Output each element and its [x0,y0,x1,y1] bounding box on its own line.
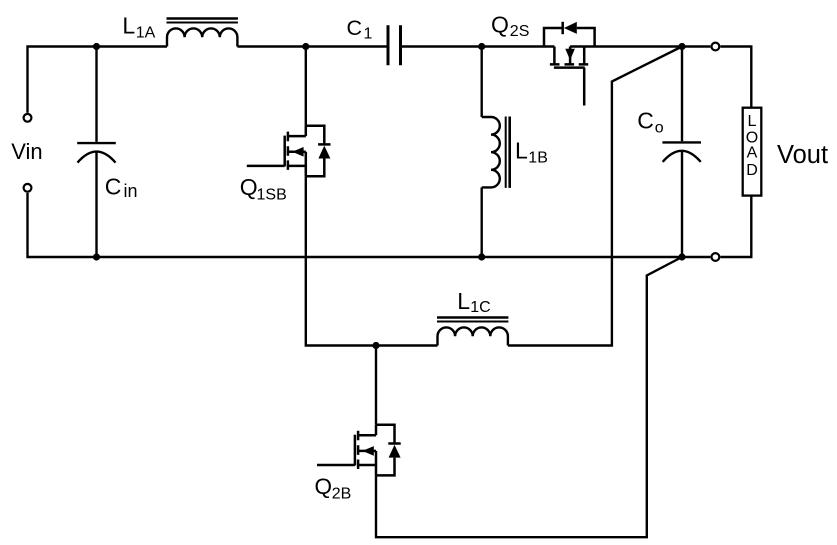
svg-text:Q: Q [240,174,258,200]
svg-text:D: D [746,162,758,179]
svg-text:L: L [457,288,470,314]
svg-text:1SB: 1SB [257,187,287,204]
svg-text:2B: 2B [332,485,352,502]
svg-text:Vin: Vin [11,139,42,164]
svg-text:1: 1 [364,26,373,43]
svg-text:L: L [122,13,135,39]
svg-text:C: C [637,107,654,133]
svg-text:Vout: Vout [777,141,828,169]
svg-text:C: C [105,173,122,199]
svg-text:1A: 1A [136,24,156,41]
svg-text:1C: 1C [470,299,490,316]
svg-text:1B: 1B [528,149,548,166]
svg-text:Q: Q [491,12,509,38]
svg-text:L: L [515,138,528,164]
svg-text:C: C [347,16,363,40]
svg-text:L: L [748,113,757,130]
svg-text:in: in [124,181,138,201]
svg-text:A: A [747,145,758,162]
svg-text:Q: Q [315,474,333,499]
svg-text:o: o [655,119,664,136]
svg-text:2S: 2S [510,23,530,40]
